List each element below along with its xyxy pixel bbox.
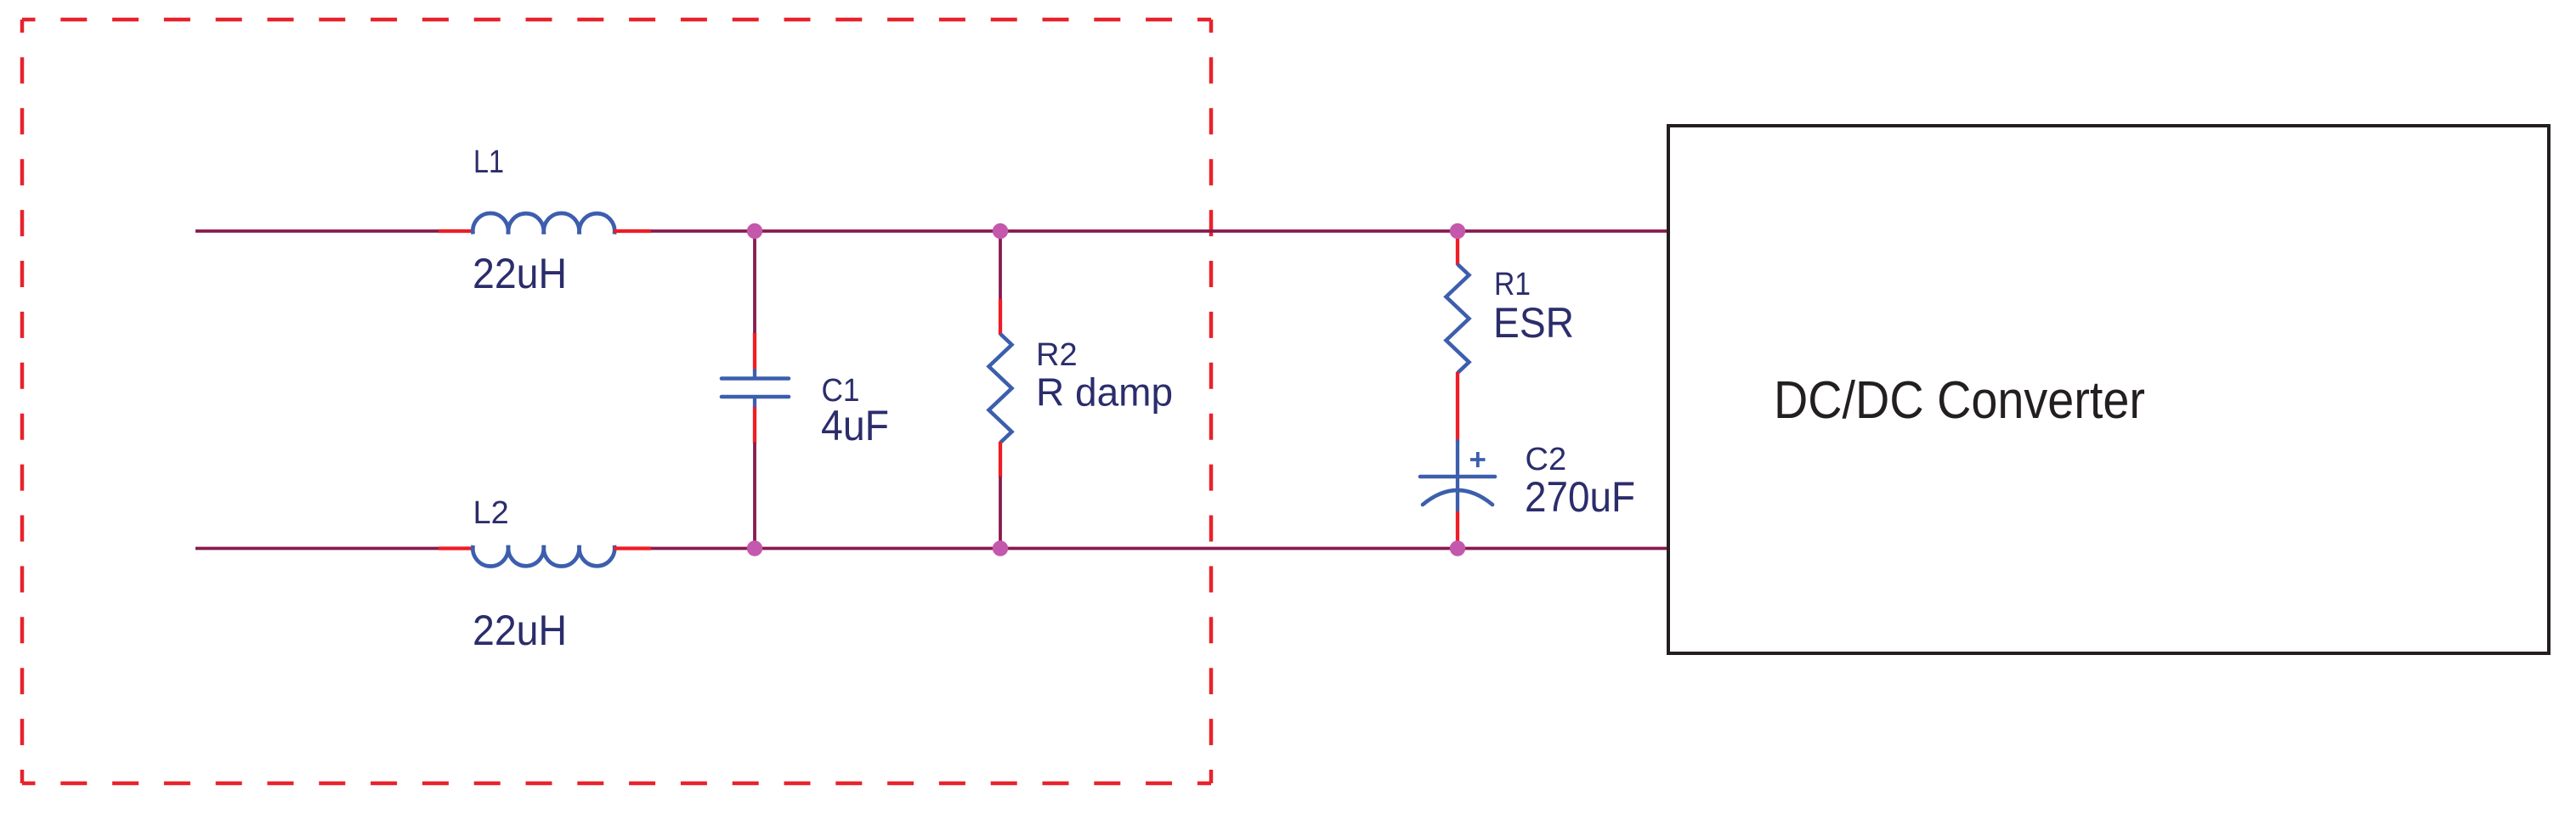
value 4uF bbox=[821, 402, 889, 449]
svg-text:R1: R1 bbox=[1494, 267, 1531, 302]
wire: L1 right pin (red) bbox=[614, 229, 651, 233]
wire: C2 bottom pin (red) bbox=[1456, 511, 1459, 549]
label L1 bbox=[473, 144, 504, 180]
resistor R1 bbox=[1447, 264, 1469, 373]
wire: bottom net, node B' to node C' bbox=[1000, 547, 1458, 551]
capacitor C2 (polarized) bbox=[1420, 441, 1495, 512]
wire: R2 branch lower (purple) bbox=[999, 477, 1002, 549]
dashed input-filter boundary box bbox=[22, 20, 1211, 783]
svg-text:L2: L2 bbox=[473, 495, 509, 531]
wire: L1 left pin (red) bbox=[439, 229, 473, 233]
wire: top net, node B to node C bbox=[1000, 229, 1458, 233]
label C2 bbox=[1526, 442, 1567, 477]
label L2 bbox=[473, 495, 509, 531]
svg-text:L1: L1 bbox=[473, 144, 504, 180]
value R damp bbox=[1036, 370, 1173, 415]
value 22uH (L1) bbox=[473, 250, 567, 297]
junction node A' (bottom of C1) bbox=[747, 540, 762, 556]
label C1 bbox=[822, 373, 860, 409]
inductor L1 bbox=[473, 213, 614, 234]
svg-text:22uH: 22uH bbox=[473, 607, 567, 654]
svg-text:DC/DC Converter: DC/DC Converter bbox=[1774, 371, 2145, 430]
wire: bottom net, L2 to node A' bbox=[651, 547, 755, 551]
wire: C1 branch lower (purple) bbox=[753, 443, 756, 549]
svg-text:R2: R2 bbox=[1036, 337, 1078, 373]
svg-text:270uF: 270uF bbox=[1525, 473, 1635, 521]
value 22uH (L2) bbox=[473, 607, 567, 654]
wire: R2 bottom pin (red) bbox=[999, 442, 1002, 477]
wire: R1 to C2 pin (red) bbox=[1456, 372, 1459, 442]
label R1 bbox=[1494, 267, 1531, 302]
wire: bottom net, left lead-in bbox=[195, 547, 439, 551]
inductor L2 bbox=[473, 545, 614, 567]
wire: R1 top pin (red) bbox=[1456, 231, 1459, 265]
junction node C (top of R1) bbox=[1450, 223, 1465, 239]
DC/DC converter block bbox=[1668, 126, 2549, 653]
wire: bottom net, node A' to node B' bbox=[755, 547, 1000, 551]
value 270uF bbox=[1525, 473, 1635, 521]
wire: R2 branch upper (purple) bbox=[999, 231, 1002, 301]
resistor R2 bbox=[989, 334, 1012, 443]
wire: R2 top pin (red) bbox=[999, 299, 1002, 335]
label R2 bbox=[1036, 337, 1078, 373]
junction node B (top of R2) bbox=[993, 223, 1008, 239]
wire: C1 top pin (red) bbox=[753, 333, 756, 371]
wire: top net, node A to node B bbox=[755, 229, 1000, 233]
wire: top net, L1 to node A bbox=[651, 229, 755, 233]
wire: L2 left pin (red) bbox=[439, 546, 473, 550]
svg-text:ESR: ESR bbox=[1493, 299, 1574, 347]
value ESR bbox=[1493, 299, 1574, 347]
wire: C1 branch upper (purple) bbox=[753, 231, 756, 335]
svg-text:22uH: 22uH bbox=[473, 250, 567, 297]
wire: L2 right pin (red) bbox=[614, 546, 651, 550]
junction node A (top of C1) bbox=[747, 223, 762, 239]
wire: top net, node C to converter bbox=[1458, 229, 1668, 233]
junction node B' (bottom of R2) bbox=[993, 540, 1008, 556]
wire: bottom net, node C' to converter bbox=[1458, 547, 1668, 551]
wire: C1 bottom pin (red) bbox=[753, 407, 756, 443]
svg-text:4uF: 4uF bbox=[821, 402, 889, 449]
wire: top net, left lead-in bbox=[195, 229, 439, 233]
capacitor C1 bbox=[722, 370, 789, 408]
junction node C' (bottom of C2) bbox=[1450, 540, 1465, 556]
svg-text:C2: C2 bbox=[1526, 442, 1567, 477]
svg-text:R damp: R damp bbox=[1036, 370, 1173, 415]
